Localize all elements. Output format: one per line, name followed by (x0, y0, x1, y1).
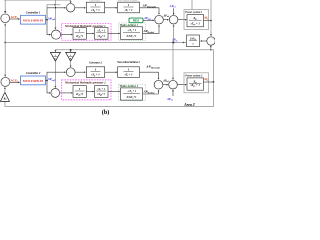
svg-text:sTps + 1: sTps + 1 (190, 22, 201, 27)
svg-text:Non-reheat turbine 2: Non-reheat turbine 2 (116, 61, 140, 64)
wire: deltaP tie distribution line to far left (5, 41, 186, 43)
summing junction hydro governor 2 (51, 89, 60, 98)
junction dot droop crossing (55, 7, 56, 8)
wire: droop 1/R1 line from cropped top into hydro gov sum (54, 0, 56, 29)
wire: hydro sum 2 output into mech hydraulic governor 2 (60, 92, 73, 94)
wire: tie feedback up into sum2 bottom area1 (173, 25, 175, 42)
cropped top border line (remnant of area-1 feedback gains) (4, 0, 71, 2)
wire: cropped B1 feed stub into power system area (191, 0, 193, 10)
wire: pilot 2 to droop compensation 2 (86, 91, 94, 93)
block RES 1 (129, 18, 143, 23)
block power system 1: Kps/(sTps+1) (187, 15, 204, 27)
block transient droop 2: (sTr+1)/(sTgh+1) (95, 86, 109, 98)
wire: controller output to split node (46, 19, 48, 21)
junction dot ref2 (46, 80, 48, 82)
summing junction tie-line (207, 37, 215, 45)
wire: sum2 to power system 1 (178, 19, 186, 21)
junction dot ref1 (46, 19, 48, 21)
wire: left column tie down into ACE2 top (4, 42, 6, 76)
wire: mech governor 1 to hydro turbine 1 (108, 32, 120, 34)
wire: f2 down and along bottom to B2 (5, 82, 214, 106)
svg-text:MVO FOPD-PI: MVO FOPD-PI (23, 79, 44, 83)
wire: tie feedback down into sum2 top area2 (172, 42, 174, 79)
junction dot f2 to thermal droop (70, 49, 72, 51)
box mechanical hydraulic governor 1 (dashed magenta) (62, 24, 111, 41)
wire: thermal sum to governor 1 (75, 7, 86, 9)
svg-text:sTgh+1: sTgh+1 (75, 93, 84, 97)
wire: f1 down into tie-line sum top (210, 21, 212, 36)
svg-text:MVO FOPD-PI: MVO FOPD-PI (23, 18, 44, 22)
wire: load disturbance L2 into sum2 bottom area2 (172, 90, 174, 96)
wire: ACE2 to controller 2 (10, 81, 20, 83)
svg-text:Governor 2: Governor 2 (89, 61, 102, 64)
junction dot tie sum bottom stub (210, 49, 212, 51)
svg-text:−sTw + 1: −sTw + 1 (127, 29, 137, 33)
svg-text:0.5sTw+1: 0.5sTw+1 (127, 35, 138, 39)
wire: sum1 to sum2 area2 (163, 84, 168, 86)
junction dot tie to area2 (172, 42, 174, 44)
summing junction ACE1 (1, 14, 10, 23)
wire: ref1 riser down to hydro sum row (47, 20, 51, 35)
block governor 2: 1/(sTg+1) (86, 67, 104, 78)
controller U1: MVO FOPD-PI (21, 15, 46, 24)
summing junction ACE2 (1, 77, 10, 86)
junction dot droop top crossing (54, 4, 56, 6)
junction dot f1 node (210, 20, 212, 22)
wire: pilot to droop compensation block (86, 32, 94, 34)
svg-text:RES: RES (133, 19, 139, 23)
wire: power system 1 output to f1 node (204, 20, 212, 22)
wire: tie sum output into tie block (201, 40, 207, 42)
svg-text:−sTw + 1: −sTw + 1 (127, 90, 137, 94)
wire: governor 1 to turbine 1 (105, 7, 117, 9)
svg-text:Kps: Kps (192, 17, 197, 21)
block hydro pilot 1: 1/(sTgh+1) (73, 28, 86, 40)
wire: f2 feedback line to triangle R2 hydro (55, 50, 213, 82)
svg-text:sTt + 1: sTt + 1 (124, 73, 134, 78)
svg-text:sTgh+1: sTgh+1 (75, 35, 84, 39)
gain triangle 1/R2 hydro (50, 52, 60, 61)
block transient droop 1: (sTr+1)/(sTgh+1) (95, 28, 109, 40)
block tie line: 2piT12/s (187, 35, 200, 47)
svg-text:Power system 1: Power system 1 (185, 11, 203, 14)
box power system 2 (184, 73, 209, 93)
svg-text:0.5sTw+1: 0.5sTw+1 (127, 96, 138, 100)
wire: sum2 to power system 2 (177, 84, 186, 86)
box hydro turbine 1 (dashed green) (119, 23, 146, 40)
wire: triangle hydro droop down into hydro gov sum 2 (54, 61, 56, 87)
box hydro turbine 2 (dashed green) (119, 84, 146, 101)
box mechanical hydraulic governor 2 (dashed magenta) (62, 80, 111, 100)
gain triangle 1/R2 thermal (66, 52, 76, 61)
block turbine 1: 1/(sTt+1) (118, 2, 140, 13)
svg-text:Mechanical Hydraulic governor: Mechanical Hydraulic governor 2 (64, 80, 106, 84)
svg-text:Power system 2: Power system 2 (185, 74, 203, 77)
svg-text:Controller 1: Controller 1 (26, 11, 41, 15)
wire: controller 2 output to split node (46, 80, 48, 82)
sum signs ACE1 (6, 6, 214, 95)
wire: mech governor 2 to hydro turbine 2 (108, 91, 120, 93)
block hydro turbine 2: (-sTw+1)/(0.5sTw+1) (121, 88, 143, 100)
svg-text:sTgh+1: sTgh+1 (97, 93, 106, 97)
arrowhead tie into line (183, 41, 187, 43)
controller U2: MVO FOPD-PI (21, 76, 46, 85)
wire: ACE1 to controller 1 (10, 18, 20, 20)
summing junction generation sum1 area2 (154, 80, 163, 89)
summing junction generation sum1 area1 (155, 15, 164, 24)
block turbine 2: 1/(sTt+1) (118, 67, 140, 78)
wire: triangle thermal droop down into thermal gov sum 2 (70, 61, 72, 67)
wire: RES to sum1 left (143, 19, 154, 21)
svg-text:(b): (b) (102, 109, 110, 116)
summing junction thermal governor 2 (66, 68, 75, 77)
svg-text:sTr + 1: sTr + 1 (97, 88, 106, 92)
wire: sum1 to sum2 (163, 19, 168, 21)
svg-text:sTt + 1: sTt + 1 (124, 8, 134, 13)
svg-text:s: s (191, 43, 193, 46)
wire: cropped 1/R1 triangle remnant above hydro feed (47, 5, 61, 8)
svg-text:sTps + 1: sTps + 1 (190, 83, 201, 88)
svg-text:Area 2: Area 2 (183, 103, 195, 107)
wire: hydro turbine 2 output up into sum1 bottom area2 (143, 90, 159, 94)
wire: ref2 riser up to thermal sum row 2 (47, 72, 66, 80)
wire: thermal sum 2 to governor 2 (75, 71, 85, 73)
wire: power system 2 output to f2 node (204, 81, 214, 83)
block governor 1: 1/(sTg+1) (86, 2, 104, 13)
wire: f2 stub down into triangle R2 thermal (70, 50, 72, 52)
wire: turbine 2 output to sum1 top area2 (140, 72, 159, 79)
junction dot tie left corner (4, 42, 6, 44)
wire: f1 riser cropped to top (210, 0, 212, 21)
summing junction load sum2 area2 (169, 80, 178, 89)
wire: hydro sum output into mech hydraulic governor 1 (61, 34, 73, 36)
svg-text:B2: B2 (3, 98, 7, 102)
block hydro pilot 2: 1/(sTgh+1) (73, 86, 86, 98)
wire: ref1 riser up to thermal sum row (47, 8, 66, 20)
summing junction load sum2 area1 (169, 15, 178, 24)
svg-text:sTg + 1: sTg + 1 (90, 8, 100, 13)
summing junction hydro governor 1 (51, 30, 60, 39)
wire: tie feedback up into ACE1 bottom (4, 24, 6, 43)
wire: turbine 1 output to sum1 top (140, 8, 160, 14)
svg-text:sTgh+1: sTgh+1 (97, 35, 106, 39)
svg-text:Mechanical Hydraulic governor: Mechanical Hydraulic governor 1 (64, 24, 106, 28)
svg-text:Controller 2: Controller 2 (26, 71, 41, 75)
wire: hydro turbine 1 output up into sum1 bottom (143, 25, 160, 33)
box power system 1 (184, 10, 209, 30)
wire: load disturbance L1 into sum2 top (173, 8, 175, 14)
summing junction thermal governor 1 (66, 4, 74, 12)
junction dot tie to sum2 area1 (173, 42, 175, 44)
gain triangle B2 (0, 92, 9, 101)
wire: governor 2 to turbine 2 (105, 71, 117, 73)
wire: B2 output up into ACE2 bottom (4, 87, 6, 92)
block hydro turbine 1: (-sTw+1)/(0.5sTw+1) (121, 27, 143, 40)
block power system 2: Kps/(sTps+1) (187, 78, 204, 90)
wire: droop 1/R1 stub into thermal gov sum from top (70, 0, 72, 3)
wire: B1 feedback into ACE1 sum from top (4, 0, 6, 13)
wire: tie sum bottom stub to f2 line (210, 46, 212, 50)
junction dot f2 node (213, 81, 215, 83)
svg-text:sTg + 1: sTg + 1 (90, 73, 100, 78)
wire: ref2 riser down to hydro sum row 2 (47, 81, 50, 93)
